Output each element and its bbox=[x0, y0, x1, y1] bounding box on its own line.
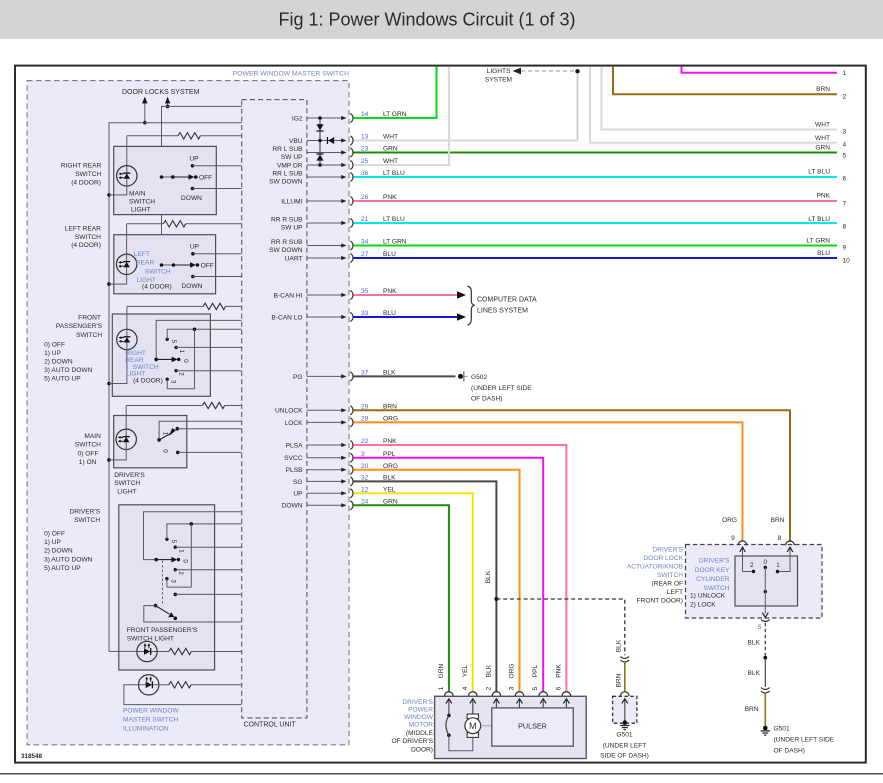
svg-text:RIGHT: RIGHT bbox=[125, 350, 146, 357]
svg-text:PPL: PPL bbox=[532, 664, 539, 677]
svg-text:LIGHT: LIGHT bbox=[117, 488, 136, 495]
wire LED D5 left lead to bus bbox=[109, 650, 137, 652]
control unit enclosure bbox=[242, 100, 307, 729]
svg-text:DOOR): DOOR) bbox=[411, 746, 433, 753]
svg-text:CONTROL UNIT: CONTROL UNIT bbox=[244, 722, 297, 729]
wire 27 BLU to edge row 10 bbox=[354, 257, 838, 259]
svg-text:RR L SUB: RR L SUB bbox=[272, 146, 303, 153]
svg-text:GRN: GRN bbox=[438, 663, 445, 678]
svg-text:BLK: BLK bbox=[748, 640, 761, 647]
svg-text:0: 0 bbox=[182, 359, 189, 363]
svg-text:8: 8 bbox=[843, 224, 847, 231]
svg-text:SW UP: SW UP bbox=[281, 225, 303, 232]
wire dashed BLK to left ground bbox=[496, 599, 624, 655]
wire 33 BLU to computer data lines bbox=[354, 316, 458, 318]
svg-text:1: 1 bbox=[776, 562, 780, 569]
svg-text:REAR: REAR bbox=[125, 357, 144, 364]
svg-text:PLSA: PLSA bbox=[286, 442, 303, 449]
svg-text:VBU: VBU bbox=[289, 138, 303, 145]
power window master switch enclosure bbox=[27, 71, 349, 745]
LED D3 right rear switch light bbox=[117, 329, 137, 349]
svg-text:LT BLU: LT BLU bbox=[808, 169, 830, 176]
label right rear switch (4 door) bbox=[61, 163, 102, 187]
resistor R4 (driver switch light) bbox=[126, 402, 242, 408]
svg-text:SW UP: SW UP bbox=[281, 154, 303, 161]
svg-text:SWITCH: SWITCH bbox=[657, 572, 683, 579]
svg-text:SWITCH: SWITCH bbox=[76, 332, 102, 339]
wire 25 WHT to top bbox=[354, 67, 450, 165]
wire 21 LT BLU to edge row 8 bbox=[354, 222, 838, 224]
label driver's switch bbox=[70, 509, 101, 524]
svg-text:B-CAN HI: B-CAN HI bbox=[274, 292, 303, 299]
svg-text:BRN: BRN bbox=[816, 86, 830, 93]
wire LED D1 return bbox=[109, 186, 127, 195]
svg-text:6: 6 bbox=[843, 176, 847, 183]
svg-text:SIDE OF DASH): SIDE OF DASH) bbox=[600, 753, 649, 760]
svg-text:9: 9 bbox=[843, 245, 847, 252]
svg-text:LT BLU: LT BLU bbox=[808, 216, 830, 223]
svg-text:1: 1 bbox=[162, 432, 169, 436]
wire LED D2 return bbox=[109, 274, 127, 284]
svg-text:B-CAN LO: B-CAN LO bbox=[271, 314, 302, 321]
svg-text:LEFT REAR: LEFT REAR bbox=[65, 225, 101, 232]
node taps on light bus bbox=[107, 193, 111, 462]
svg-text:OFF: OFF bbox=[199, 175, 212, 182]
LED D4 driver switch light bbox=[116, 429, 136, 449]
svg-text:DOOR LOCK: DOOR LOCK bbox=[643, 555, 683, 562]
motor M1 bbox=[465, 714, 492, 737]
label driver positions list bbox=[44, 531, 92, 572]
svg-text:PLSB: PLSB bbox=[286, 467, 303, 474]
svg-text:Fig 1: Power Windows Circuit (: Fig 1: Power Windows Circuit (1 of 3) bbox=[278, 10, 575, 30]
svg-text:LOCK: LOCK bbox=[285, 420, 304, 427]
svg-text:10: 10 bbox=[843, 258, 851, 265]
svg-text:UP: UP bbox=[189, 156, 199, 163]
wire BLK dashed from pin 5 bbox=[748, 623, 766, 656]
pin 24 DOWN bbox=[282, 498, 398, 509]
wire 23 GRN to edge row 5 bbox=[354, 152, 838, 154]
svg-text:2) LOCK: 2) LOCK bbox=[690, 601, 716, 608]
svg-text:SWITCH: SWITCH bbox=[75, 171, 101, 178]
node junction on BLK wire bbox=[494, 597, 498, 601]
svg-text:UART: UART bbox=[285, 255, 303, 262]
svg-text:BRN: BRN bbox=[771, 517, 785, 524]
pin 20 PLSB bbox=[286, 463, 398, 474]
motor brush switch arc bbox=[446, 714, 473, 751]
LED D1 main switch light bbox=[117, 166, 137, 186]
svg-text:DOOR KEY: DOOR KEY bbox=[695, 567, 730, 574]
switch left rear (in master switch) bbox=[160, 244, 242, 290]
svg-text:3: 3 bbox=[170, 380, 177, 384]
svg-text:MOTOR: MOTOR bbox=[409, 721, 434, 728]
diode D3 (on VBU row, pointing left) bbox=[328, 137, 335, 144]
edge connector numbers 1-10 bbox=[843, 70, 851, 265]
svg-text:PASSENGER'S: PASSENGER'S bbox=[56, 323, 103, 330]
connector arc at left ground box bbox=[621, 692, 630, 696]
label left rear switch light bbox=[134, 251, 172, 291]
svg-text:SWITCH: SWITCH bbox=[114, 480, 140, 487]
svg-text:FRONT: FRONT bbox=[78, 315, 101, 322]
ground G501 left bbox=[600, 720, 649, 759]
connector motor pin 2 bbox=[492, 692, 501, 708]
svg-text:318548: 318548 bbox=[21, 753, 43, 760]
svg-text:(4 DOOR): (4 DOOR) bbox=[71, 242, 101, 249]
svg-text:LEFT: LEFT bbox=[667, 589, 683, 596]
svg-text:REAR: REAR bbox=[136, 260, 155, 267]
wire edge row 2 BRN from top bbox=[613, 67, 837, 95]
diode D2 (VMP DR to VBU, pointing up) bbox=[316, 154, 323, 161]
svg-text:SWITCH: SWITCH bbox=[75, 234, 101, 241]
svg-text:DOWN: DOWN bbox=[282, 503, 303, 510]
driver's power window motor box bbox=[391, 696, 586, 758]
svg-text:6: 6 bbox=[555, 686, 562, 690]
pin 35 B-CAN HI bbox=[274, 288, 398, 299]
label front passenger positions list bbox=[44, 342, 92, 383]
wire edge row 4 WHT from top bbox=[590, 67, 837, 143]
svg-text:MAIN: MAIN bbox=[84, 433, 101, 440]
light return bus wire bbox=[109, 123, 242, 652]
connector motor pin 1 bbox=[445, 692, 454, 716]
svg-text:RIGHT REAR: RIGHT REAR bbox=[61, 163, 102, 170]
svg-text:PNK: PNK bbox=[816, 193, 830, 200]
label main switch bbox=[75, 433, 101, 466]
svg-text:1) UNLOCK: 1) UNLOCK bbox=[690, 592, 726, 599]
svg-text:G502: G502 bbox=[471, 374, 487, 381]
driver's door key cylinder switch box bbox=[690, 556, 798, 608]
pin 29 UNLOCK bbox=[275, 403, 397, 414]
label right rear switch light bbox=[125, 350, 163, 384]
svg-text:COMPUTER DATA: COMPUTER DATA bbox=[477, 297, 537, 304]
wire 20 ORG to motor pin 3 bbox=[354, 470, 520, 692]
pin 14 IG2 bbox=[292, 111, 407, 122]
svg-text:2) DOWN: 2) DOWN bbox=[44, 548, 73, 555]
svg-text:PG: PG bbox=[293, 374, 303, 381]
svg-text:IG2: IG2 bbox=[292, 115, 303, 122]
resistor R3 (right rear switch light) bbox=[127, 303, 242, 309]
switch driver auto kickdown bbox=[144, 561, 242, 623]
svg-text:8: 8 bbox=[778, 535, 782, 542]
svg-text:5: 5 bbox=[843, 153, 847, 160]
svg-text:0: 0 bbox=[182, 559, 189, 563]
svg-text:WHT: WHT bbox=[815, 122, 830, 129]
svg-text:BLU: BLU bbox=[817, 250, 830, 257]
svg-text:(4 DOOR): (4 DOOR) bbox=[71, 179, 101, 186]
svg-text:(MIDDLE: (MIDDLE bbox=[406, 730, 434, 737]
wire to door locks system (light feed) bbox=[142, 97, 147, 125]
svg-text:2: 2 bbox=[177, 571, 184, 575]
svg-text:FRONT PASSENGER'S: FRONT PASSENGER'S bbox=[127, 627, 198, 634]
svg-text:3: 3 bbox=[169, 579, 176, 583]
resistor R1 (main switch light) bbox=[127, 133, 242, 139]
wire 35 PNK to computer data lines bbox=[354, 294, 458, 296]
inline connector on left ground wire bbox=[620, 657, 629, 662]
svg-text:SW DOWN: SW DOWN bbox=[269, 247, 303, 254]
pin 22 PLSA bbox=[286, 438, 398, 449]
svg-text:ACTUATOR/KNOB: ACTUATOR/KNOB bbox=[627, 564, 684, 571]
svg-text:2: 2 bbox=[485, 686, 492, 690]
svg-text:UP: UP bbox=[190, 244, 200, 251]
ground G502 bbox=[458, 371, 532, 402]
connector motor pin 4 bbox=[469, 692, 478, 714]
key cylinder common wire to pin 5 bbox=[762, 568, 768, 618]
wire 14 LT GRN to top bbox=[354, 67, 437, 118]
svg-text:2: 2 bbox=[178, 372, 185, 376]
svg-text:1: 1 bbox=[177, 549, 184, 553]
wire LED D4 return bbox=[109, 449, 126, 460]
svg-text:OFF: OFF bbox=[201, 263, 214, 270]
main switch box bbox=[114, 416, 187, 468]
svg-text:(4 DOOR): (4 DOOR) bbox=[142, 284, 172, 291]
svg-text:0) OFF: 0) OFF bbox=[78, 451, 99, 458]
wire 32 BLK to motor pin 2 bbox=[354, 481, 497, 692]
svg-text:DRIVER'S: DRIVER'S bbox=[699, 558, 730, 565]
svg-text:SYSTEM: SYSTEM bbox=[485, 77, 512, 84]
wire BRN to ground G501 right bbox=[745, 693, 766, 727]
svg-text:5: 5 bbox=[170, 340, 177, 344]
svg-text:VMP DR: VMP DR bbox=[277, 162, 303, 169]
svg-text:OF DASH): OF DASH) bbox=[774, 748, 806, 755]
svg-text:0) OFF: 0) OFF bbox=[44, 531, 65, 538]
left rear switch box bbox=[114, 235, 216, 294]
svg-text:5) AUTO UP: 5) AUTO UP bbox=[44, 565, 81, 572]
svg-text:(4 DOOR): (4 DOOR) bbox=[133, 377, 163, 384]
label main switch light bbox=[129, 190, 155, 213]
svg-text:2: 2 bbox=[750, 562, 754, 569]
wire to door locks system (switch feed) bbox=[165, 97, 170, 108]
svg-text:LIGHT: LIGHT bbox=[126, 370, 145, 377]
svg-text:YEL: YEL bbox=[462, 664, 469, 677]
svg-text:2: 2 bbox=[843, 94, 847, 101]
svg-text:BRN: BRN bbox=[745, 706, 759, 713]
svg-text:ORG: ORG bbox=[509, 663, 516, 678]
pulser box bbox=[492, 708, 574, 746]
svg-text:MAIN: MAIN bbox=[129, 190, 146, 197]
key cylinder pin 8 internal wire bbox=[780, 547, 793, 572]
svg-text:3: 3 bbox=[509, 686, 516, 690]
svg-text:SW DOWN: SW DOWN bbox=[269, 179, 303, 186]
svg-text:0) OFF: 0) OFF bbox=[44, 342, 65, 349]
svg-text:POWER WINDOW MASTER SWITCH: POWER WINDOW MASTER SWITCH bbox=[233, 71, 349, 78]
pin 37 PG bbox=[293, 370, 396, 381]
connector pin 5 below key cylinder bbox=[758, 620, 770, 631]
front passenger's switch box bbox=[112, 314, 210, 396]
pin 12 UP bbox=[293, 486, 395, 497]
pin 33 B-CAN LO bbox=[271, 310, 396, 321]
svg-text:0: 0 bbox=[764, 559, 768, 566]
svg-text:ILLUMINATION: ILLUMINATION bbox=[123, 725, 169, 732]
label driver's switch light bbox=[114, 472, 145, 495]
svg-text:GRN: GRN bbox=[815, 145, 830, 152]
key cylinder pin 9 internal wire bbox=[740, 547, 752, 572]
svg-text:2) DOWN: 2) DOWN bbox=[44, 359, 73, 366]
wire 26 PNK to edge row 7 bbox=[354, 200, 838, 202]
pin 32 SG bbox=[293, 475, 396, 486]
wire 3 PPL to motor pin 5 bbox=[354, 458, 544, 692]
svg-text:BRN: BRN bbox=[615, 673, 622, 687]
LED D5 front passenger switch light bbox=[137, 641, 157, 661]
svg-text:BLK: BLK bbox=[748, 670, 761, 677]
pin 13 VBU bbox=[289, 134, 398, 145]
svg-text:(REAR OF: (REAR OF bbox=[651, 581, 683, 588]
svg-text:7: 7 bbox=[843, 201, 847, 208]
wire 34 LT GRN to edge row 9 bbox=[354, 245, 838, 247]
svg-text:PNK: PNK bbox=[555, 664, 562, 678]
svg-text:BLK: BLK bbox=[485, 570, 492, 583]
svg-text:4: 4 bbox=[462, 686, 469, 690]
right rear switch box bbox=[114, 146, 217, 214]
svg-text:LIGHT: LIGHT bbox=[131, 207, 150, 214]
node splice on BLK wire bbox=[763, 656, 767, 660]
svg-text:DRIVER'S: DRIVER'S bbox=[652, 547, 683, 554]
svg-text:OF DRIVER'S: OF DRIVER'S bbox=[391, 738, 433, 745]
connector motor pin 5 bbox=[539, 692, 548, 708]
resistor R2 (left rear switch light) bbox=[127, 221, 242, 227]
wire 24 GRN to motor pin 1 bbox=[354, 505, 449, 692]
svg-text:1) UP: 1) UP bbox=[44, 350, 61, 357]
wire 13 WHT to lights system node bbox=[354, 140, 578, 142]
ground G501 right bbox=[761, 726, 835, 755]
diode D1 (IG2 to VBU, pointing down) bbox=[316, 124, 323, 131]
svg-text:ILLUMI: ILLUMI bbox=[281, 198, 302, 205]
svg-text:LIGHTS: LIGHTS bbox=[487, 68, 511, 75]
svg-text:WHT: WHT bbox=[815, 135, 830, 142]
svg-text:POWER WINDOW: POWER WINDOW bbox=[123, 707, 179, 714]
svg-text:FRONT DOOR): FRONT DOOR) bbox=[637, 598, 683, 605]
svg-text:9: 9 bbox=[731, 535, 735, 542]
computer data lines system arrows and brace bbox=[457, 286, 537, 325]
switch main on/off bbox=[157, 421, 241, 454]
pin 28 LOCK bbox=[285, 416, 399, 427]
svg-text:1) UP: 1) UP bbox=[44, 539, 61, 546]
resistor R6 (illumination) bbox=[159, 682, 242, 688]
switch right rear (in master switch) bbox=[160, 156, 242, 202]
svg-text:LEFT: LEFT bbox=[134, 251, 150, 258]
pin 25 VMP DR bbox=[277, 158, 398, 169]
svg-text:SWITCH: SWITCH bbox=[74, 517, 100, 524]
connector motor pin 6 bbox=[562, 692, 571, 708]
svg-text:1: 1 bbox=[178, 349, 185, 353]
pin 34 RR R SUB SW DOWN bbox=[269, 239, 407, 255]
svg-text:PULSER: PULSER bbox=[518, 721, 547, 730]
svg-text:0: 0 bbox=[162, 449, 169, 453]
svg-text:G501: G501 bbox=[616, 732, 632, 739]
wire 22 PNK to motor pin 6 bbox=[354, 445, 567, 692]
label front passenger's switch bbox=[56, 315, 103, 339]
svg-text:1: 1 bbox=[438, 686, 445, 690]
svg-text:SVCC: SVCC bbox=[284, 455, 303, 462]
label front passenger's switch light bbox=[127, 627, 198, 643]
wire LED D6 return to control unit bbox=[124, 685, 242, 705]
svg-text:5) AUTO UP: 5) AUTO UP bbox=[44, 376, 81, 383]
svg-text:4: 4 bbox=[843, 142, 847, 149]
svg-text:3) AUTO DOWN: 3) AUTO DOWN bbox=[44, 367, 92, 374]
svg-text:(UNDER LEFT SIDE: (UNDER LEFT SIDE bbox=[471, 385, 532, 392]
svg-text:DRIVER'S: DRIVER'S bbox=[114, 472, 145, 479]
driver's door lock actuator/knob switch enclosure (dashed) bbox=[627, 545, 822, 619]
ground connector box (dashed) bbox=[613, 696, 637, 723]
wire edge row 1 magenta from top bbox=[682, 67, 838, 73]
svg-text:ORG: ORG bbox=[722, 517, 737, 524]
svg-text:OF DASH): OF DASH) bbox=[471, 396, 503, 403]
switch front passenger (5-position) bbox=[154, 320, 241, 388]
svg-text:BLK: BLK bbox=[615, 639, 622, 652]
inline connector on ground wire bbox=[761, 688, 770, 693]
svg-text:UP: UP bbox=[293, 491, 303, 498]
wire 36 LT BLU to edge row 6 bbox=[354, 176, 838, 178]
svg-text:SWITCH: SWITCH bbox=[75, 442, 101, 449]
svg-text:(UNDER LEFT SIDE: (UNDER LEFT SIDE bbox=[774, 737, 835, 744]
pin 21 RR R SUB SW UP bbox=[271, 216, 405, 232]
diode network node on IG2/VBU/VMP DR bbox=[318, 116, 322, 167]
svg-text:DOWN: DOWN bbox=[181, 283, 202, 290]
svg-text:LT GRN: LT GRN bbox=[806, 238, 830, 245]
wire 37 BLK to ground G502 bbox=[354, 375, 456, 377]
label power window master switch illumination bbox=[123, 707, 179, 732]
svg-text:1) ON: 1) ON bbox=[79, 459, 97, 466]
wire BRN to ground G501 left bbox=[615, 662, 625, 692]
LED D6 master switch illumination bbox=[139, 675, 159, 695]
pin 26 ILLUMI bbox=[281, 194, 397, 205]
label left rear switch (4 door) bbox=[65, 225, 101, 249]
svg-text:RR R SUB: RR R SUB bbox=[271, 239, 303, 246]
svg-text:LINES SYSTEM: LINES SYSTEM bbox=[477, 307, 528, 314]
svg-text:DRIVER'S: DRIVER'S bbox=[70, 509, 101, 516]
wire LED feeds bbox=[125, 136, 128, 430]
svg-text:SWITCH: SWITCH bbox=[145, 268, 171, 275]
svg-text:MASTER SWITCH: MASTER SWITCH bbox=[123, 716, 179, 723]
lights system off-page arrow bbox=[485, 68, 574, 84]
svg-text:(UNDER LEFT: (UNDER LEFT bbox=[603, 743, 647, 750]
svg-text:5: 5 bbox=[758, 624, 762, 631]
svg-text:BLK: BLK bbox=[485, 664, 492, 677]
svg-text:UNLOCK: UNLOCK bbox=[275, 408, 303, 415]
connector motor pin 3 bbox=[515, 692, 524, 708]
pin 27 UART bbox=[285, 251, 396, 262]
wire edge row 3 WHT from top bbox=[602, 67, 838, 130]
pin 23 RR L SUB SW UP bbox=[272, 146, 398, 162]
svg-text:POWER: POWER bbox=[408, 706, 433, 713]
svg-text:1: 1 bbox=[843, 70, 847, 77]
svg-text:SWITCH: SWITCH bbox=[703, 585, 729, 592]
svg-text:5: 5 bbox=[532, 686, 539, 690]
driver's switch box bbox=[119, 505, 215, 670]
svg-text:3) AUTO DOWN: 3) AUTO DOWN bbox=[44, 556, 92, 563]
svg-text:SG: SG bbox=[293, 479, 303, 486]
svg-text:5: 5 bbox=[170, 540, 177, 544]
svg-text:DRIVER'S: DRIVER'S bbox=[402, 699, 433, 706]
switch common bus wire bbox=[162, 106, 242, 265]
svg-text:CYLINDER: CYLINDER bbox=[696, 576, 730, 583]
key cylinder switch contacts bbox=[750, 559, 780, 593]
svg-text:M: M bbox=[469, 721, 477, 731]
svg-text:WINDOW: WINDOW bbox=[404, 714, 434, 721]
wire BLK solid to inline connector bbox=[748, 658, 766, 687]
svg-text:G501: G501 bbox=[774, 726, 790, 733]
wire LED D3 return bbox=[109, 349, 127, 383]
svg-text:RR L SUB: RR L SUB bbox=[272, 171, 303, 178]
wire 29 BRN to key cylinder pin 8 bbox=[354, 410, 791, 542]
svg-text:SWITCH: SWITCH bbox=[129, 198, 155, 205]
connector arcs at key cylinder pins 9 and 8 bbox=[738, 541, 747, 545]
LED D2 left rear switch light bbox=[116, 254, 136, 274]
svg-text:RR R SUB: RR R SUB bbox=[271, 217, 303, 224]
svg-text:DOWN: DOWN bbox=[181, 195, 202, 202]
resistor R5 (front passenger switch light) bbox=[157, 648, 242, 654]
node lights system junction bbox=[575, 69, 579, 140]
wire 28 ORG to key cylinder pin 9 bbox=[354, 422, 743, 541]
switch driver master (5-position) bbox=[144, 512, 242, 587]
pin 36 RR L SUB SW DOWN bbox=[269, 170, 405, 186]
